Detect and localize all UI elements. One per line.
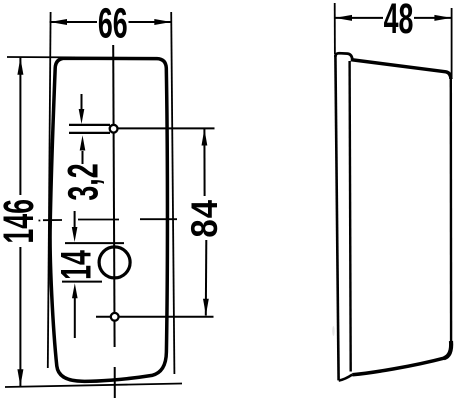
svg-text:14: 14 xyxy=(52,250,100,280)
svg-text:48: 48 xyxy=(384,0,414,43)
svg-text:146: 146 xyxy=(0,199,42,244)
svg-text:84: 84 xyxy=(184,199,225,238)
svg-text:3,2: 3,2 xyxy=(59,163,107,200)
svg-text:66: 66 xyxy=(98,0,128,47)
